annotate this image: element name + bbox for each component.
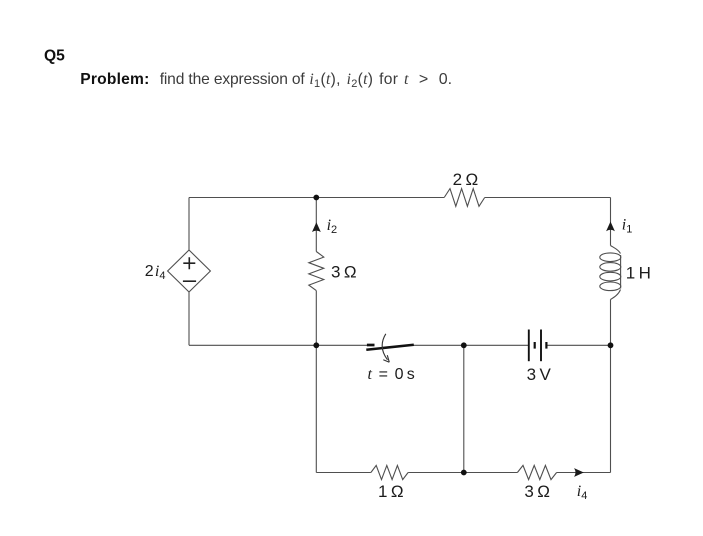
svg-text:2 i4: 2 i4 [145,263,166,282]
svg-text:1 H: 1 H [626,263,651,282]
svg-text:3 Ω: 3 Ω [524,482,550,501]
svg-text:t > 0.: t > 0. [404,71,452,88]
svg-text:i1: i1 [622,217,633,236]
svg-text:3 V: 3 V [527,365,552,384]
svg-text:find the expression of: find the expression of [160,71,306,88]
svg-text:1 Ω: 1 Ω [378,482,404,501]
svg-text:Q5: Q5 [44,47,65,64]
svg-text:3 Ω: 3 Ω [331,263,357,282]
svg-text:Problem:: Problem: [80,71,149,88]
svg-text:t = 0 s: t = 0 s [368,366,415,383]
svg-text:i4: i4 [577,483,588,502]
svg-text:i1(t), i2(t) for: i1(t), i2(t) for [309,71,398,90]
svg-text:2 Ω: 2 Ω [453,170,479,189]
svg-text:i2: i2 [327,217,338,236]
